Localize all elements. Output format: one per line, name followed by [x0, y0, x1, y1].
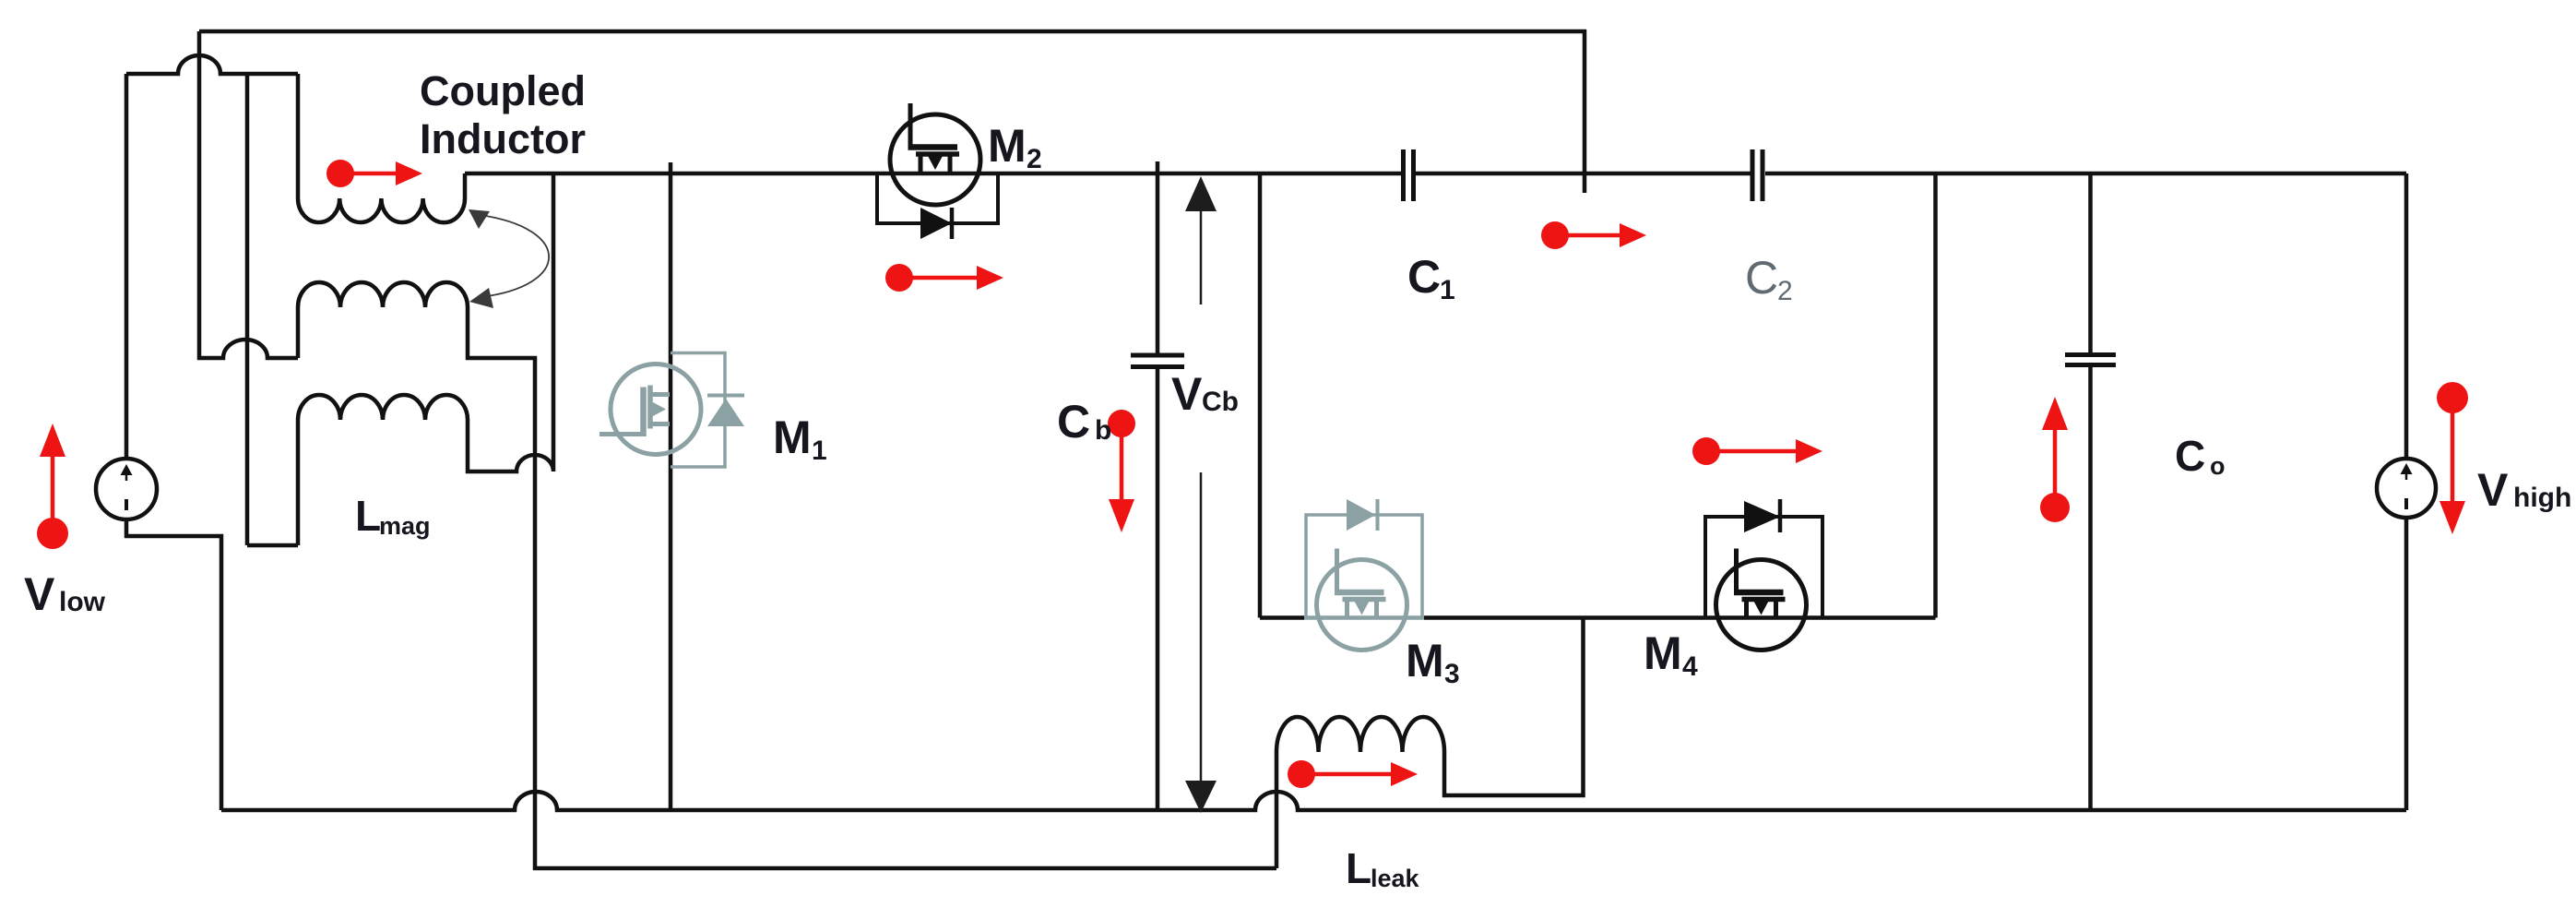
svg-text:C: C	[1057, 396, 1090, 448]
transistor M2	[890, 103, 980, 205]
svg-text:b: b	[1095, 415, 1111, 446]
svg-text:M: M	[773, 412, 812, 463]
source Vhigh	[2404, 173, 2409, 810]
wire upper-left horizontal with hop	[126, 55, 298, 74]
svg-text:M: M	[1406, 635, 1444, 686]
transistor M1	[599, 364, 701, 455]
wire bottom U link	[247, 543, 298, 548]
svg-text:Coupled: Coupled	[420, 67, 586, 114]
wire crossing vertical	[245, 74, 250, 545]
current arrow Lleak	[1288, 760, 1418, 788]
svg-text:Cb: Cb	[1202, 387, 1239, 417]
transistor M3	[1304, 615, 1424, 620]
diode M3 body	[1306, 515, 1422, 618]
svg-text:V: V	[2477, 464, 2509, 516]
current arrow M2 branch	[885, 264, 1003, 292]
svg-text:mag: mag	[379, 512, 431, 540]
svg-text:low: low	[59, 587, 106, 617]
transistor M4	[1716, 549, 1807, 650]
arrow coupling	[469, 209, 549, 308]
current arrow Vlow	[37, 424, 68, 549]
capacitor Co	[2088, 173, 2093, 810]
svg-text:1: 1	[812, 436, 827, 466]
svg-text:M: M	[988, 120, 1027, 172]
diode M4 body	[1705, 517, 1822, 618]
wire top rail	[199, 31, 1585, 193]
svg-text:2: 2	[1027, 144, 1042, 174]
current arrow C1-C2	[1541, 221, 1646, 249]
current arrow Cb	[1108, 410, 1135, 532]
capacitor C2	[1751, 149, 1755, 201]
svg-text:o: o	[2210, 452, 2226, 480]
current arrow M4 branch	[1692, 437, 1822, 465]
svg-text:high: high	[2513, 483, 2571, 513]
wire bottom rail with hops	[221, 792, 2406, 810]
svg-text:C: C	[1745, 252, 1778, 304]
wire M1 branch vertical	[669, 162, 673, 810]
svg-text:M: M	[1644, 627, 1682, 679]
svg-text:L: L	[1346, 844, 1371, 892]
wire Vlow branch	[126, 74, 221, 810]
diode M1 body	[671, 353, 725, 468]
current arrow winding1	[326, 160, 422, 187]
wire main horizontal node	[465, 172, 2406, 176]
wire switched-cap cell left vertical	[1258, 173, 1263, 618]
svg-text:1: 1	[1440, 275, 1455, 305]
current arrow Co	[2040, 397, 2070, 522]
capacitor Cb	[1156, 161, 1160, 810]
svg-text:V: V	[1171, 368, 1203, 420]
current arrow Vhigh	[2437, 382, 2468, 534]
inductor Lleak + link wire to cell mid node	[1276, 618, 1584, 869]
capacitor C1	[1401, 149, 1406, 201]
svg-text:L: L	[355, 492, 381, 540]
svg-text:Inductor: Inductor	[420, 115, 586, 162]
diode M2 body	[877, 173, 998, 223]
svg-text:C: C	[1407, 251, 1441, 303]
wire left vertical + node hop line	[199, 31, 298, 358]
svg-text:C: C	[2175, 432, 2205, 480]
wire cell bottom	[1260, 615, 1936, 620]
svg-text:V: V	[24, 568, 55, 620]
svg-text:3: 3	[1444, 659, 1460, 689]
coupled inductor winding 2 + mid link wire to bottom	[298, 282, 1276, 868]
coupled inductor winding 3 (Lmag) + link to M1 branch	[298, 173, 553, 545]
svg-text:4: 4	[1682, 651, 1698, 682]
source Vlow	[96, 459, 157, 519]
wire switched-cap cell right vertical	[1933, 173, 1938, 618]
coupled inductor winding 1	[298, 74, 465, 222]
svg-text:leak: leak	[1371, 865, 1420, 892]
svg-text:2: 2	[1777, 276, 1793, 306]
arrow VCb measurement	[1185, 176, 1217, 813]
